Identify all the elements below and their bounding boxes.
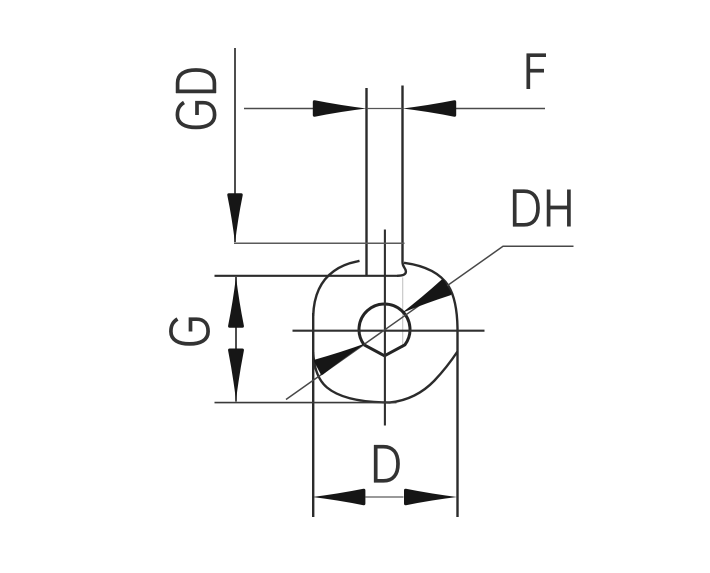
horizontal centerline [293, 330, 485, 332]
GD arrow (down) [227, 193, 242, 243]
label GD (rotated) [176, 70, 216, 127]
GD dimension line [234, 48, 236, 242]
F dimension line left tail [244, 108, 314, 110]
body bottom-left arc [313, 352, 390, 403]
G arrow up [228, 277, 244, 328]
DH arrow lower-left (tip at hole edge) [314, 343, 365, 375]
body left line [312, 313, 314, 517]
body top-right corner arc [404, 263, 458, 328]
body top-left corner arc [313, 261, 359, 316]
body right line [456, 328, 458, 517]
D dimension line grey center [366, 496, 404, 498]
F arrow left (tip at rod left line) [313, 100, 367, 116]
DH arrow upper-right (tip at hole edge) [402, 279, 452, 313]
G arrow down [228, 349, 244, 401]
top edge / G upper extension line (y=275.8) [215, 275, 398, 277]
DH leader line through hole [286, 246, 574, 399]
rod left line [365, 88, 367, 276]
D arrow left (tip at body left line) [312, 489, 365, 505]
F dimension line right tail [455, 108, 545, 110]
label DH [513, 190, 569, 227]
label D (bottom) [374, 445, 398, 483]
rod right line with bottom fillet [397, 86, 406, 276]
hole circle with pointed bottom [359, 304, 410, 356]
body bottom-right arc [390, 352, 458, 403]
vertical centerline [384, 230, 386, 426]
D arrow right (tip at body right line) [404, 489, 457, 505]
G lower extension line (y=402.6) [215, 402, 397, 404]
label F [527, 54, 546, 90]
F arrow right (tip at rod right line) [403, 100, 457, 116]
extension line GD (y=243) [234, 242, 405, 244]
rod hidden line below fillet [402, 278, 404, 349]
label G (rotated) [171, 319, 208, 344]
G dimension line [235, 277, 237, 402]
F dimension line center [367, 108, 403, 110]
